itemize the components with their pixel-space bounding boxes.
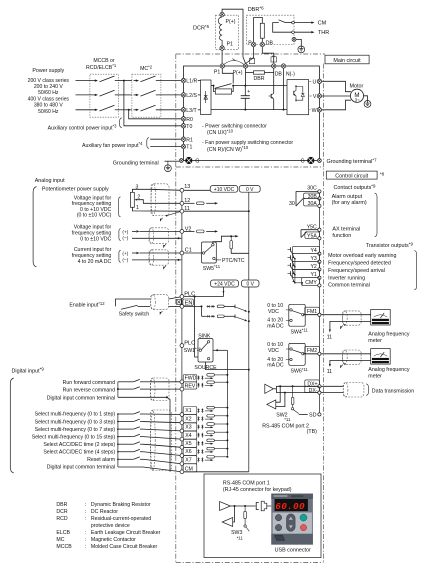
X7 row internal bbox=[198, 456, 229, 463]
open collector transistors bbox=[288, 247, 304, 285]
shield enable drain bbox=[159, 311, 163, 315]
svg-text:0 V: 0 V bbox=[246, 187, 254, 193]
svg-text:Y3: Y3 bbox=[310, 256, 316, 262]
svg-text:X7: X7 bbox=[185, 457, 191, 463]
shield C1 bbox=[149, 250, 169, 265]
svg-text:(0 to ±10 VDC): (0 to ±10 VDC) bbox=[77, 213, 112, 219]
terminal X3 bbox=[180, 429, 184, 433]
30B cell bbox=[304, 193, 321, 200]
svg-text:DBR: DBR bbox=[254, 76, 265, 82]
jumper arc P1 to P(+) bbox=[224, 59, 243, 65]
svg-text:Select ACC/DEC time (4 steps): Select ACC/DEC time (4 steps) bbox=[43, 449, 115, 455]
wire PLC to +24VDC bbox=[184, 287, 225, 298]
terminal SD bbox=[299, 412, 321, 418]
X3 cell bbox=[183, 423, 197, 431]
svg-text:13: 13 bbox=[184, 184, 190, 190]
voltage input 1 labels bbox=[72, 196, 112, 219]
svg-text:Frequency/speed arrival: Frequency/speed arrival bbox=[328, 268, 385, 274]
CM cell bbox=[183, 464, 197, 473]
terminating resistor SW3 bbox=[244, 506, 250, 531]
transistor outputs label bbox=[366, 242, 414, 250]
svg-text:Control circuit: Control circuit bbox=[335, 173, 368, 179]
svg-text:Alarm output: Alarm output bbox=[332, 194, 363, 200]
terminating resistor SW2 bbox=[291, 385, 299, 413]
terminal T1 bbox=[181, 144, 192, 150]
shield FM2 bbox=[343, 350, 362, 364]
ground symbol left bbox=[165, 161, 172, 171]
terminal N(-) bbox=[281, 64, 295, 78]
terminal PLC bbox=[180, 295, 184, 299]
digital input feed rail bbox=[226, 350, 228, 455]
bracket C1 +- bbox=[119, 250, 129, 263]
Y5A cell bbox=[305, 232, 321, 240]
svg-text:X2: X2 bbox=[185, 416, 191, 422]
DBR thermal switch contact bbox=[273, 20, 295, 34]
terminal 11 bbox=[180, 206, 190, 213]
svg-text:Magnetic Contactor: Magnetic Contactor bbox=[91, 537, 136, 543]
svg-text:Digital input common terminal: Digital input common terminal bbox=[47, 396, 115, 402]
svg-text:11: 11 bbox=[327, 369, 332, 375]
svg-text:3~: 3~ bbox=[355, 98, 361, 103]
FWD row internal bbox=[198, 374, 229, 381]
left common bus run commands bbox=[117, 382, 119, 398]
svg-text:Auxiliary fan power input*4: Auxiliary fan power input*4 bbox=[82, 141, 143, 149]
wire C1 minus bbox=[132, 259, 181, 261]
switch SW4 bbox=[286, 304, 305, 326]
power switching connector note bbox=[202, 124, 267, 137]
svg-text:function: function bbox=[332, 233, 351, 239]
safety switch label bbox=[119, 312, 150, 318]
CMY cell bbox=[302, 278, 322, 287]
DX- cell bbox=[276, 386, 321, 394]
svg-text:RS-485 COM port 2: RS-485 COM port 2 bbox=[262, 424, 309, 430]
svg-text:Potentiometer power supply: Potentiometer power supply bbox=[42, 186, 109, 192]
svg-text:Data transmission: Data transmission bbox=[372, 388, 414, 394]
FM1 return wire to 11 bbox=[327, 321, 371, 340]
terminal U bbox=[313, 79, 322, 85]
wire DCR P(+) jumper to main P(+) bbox=[222, 9, 245, 63]
svg-text:Power supply: Power supply bbox=[32, 68, 64, 74]
shield FM2 drain bbox=[339, 363, 345, 368]
svg-text:Frequency/speed detected: Frequency/speed detected bbox=[328, 261, 391, 267]
wire pot 1 to terminal 11 bbox=[132, 207, 181, 211]
DCR label bbox=[193, 24, 210, 32]
X5 row internal bbox=[198, 439, 229, 446]
wires inverter to UVW bbox=[310, 81, 312, 110]
svg-text:Analog frequency: Analog frequency bbox=[368, 332, 410, 338]
X6 row internal bbox=[198, 447, 229, 454]
svg-text:THR: THR bbox=[318, 30, 329, 36]
svg-text:CM: CM bbox=[318, 21, 327, 27]
svg-text:N(-): N(-) bbox=[286, 72, 295, 78]
junction L1 to T0 bbox=[123, 80, 181, 126]
inverter enclosure border (dash-dot) bbox=[176, 54, 325, 563]
svg-text:P(+): P(+) bbox=[233, 70, 243, 76]
wire DBR P to main P(+) with connector CN bbox=[246, 47, 255, 64]
wire SOURCE to 0V rail bbox=[206, 362, 250, 371]
DBR ground terminal bbox=[292, 37, 301, 46]
pot pin labels bbox=[136, 184, 141, 211]
svg-text:(−): (−) bbox=[122, 257, 128, 263]
REV cell bbox=[183, 382, 197, 390]
switch Run reverse command bbox=[118, 387, 151, 389]
wire pot 3 to terminal 13 bbox=[132, 189, 181, 192]
30C label and wire bbox=[296, 185, 321, 193]
terminal X7 bbox=[180, 462, 184, 466]
EN input circuit row 1 bbox=[184, 305, 250, 313]
wires run commands to terminals bbox=[151, 382, 182, 389]
wire DBR DB to main DB with connector CN bbox=[262, 47, 276, 64]
terminal PLC label bbox=[184, 291, 195, 297]
svg-text:60.00: 60.00 bbox=[275, 501, 305, 512]
FM1 cell bbox=[303, 307, 321, 316]
shield drain to 11 bbox=[166, 212, 180, 217]
svg-text:380 to 480 V: 380 to 480 V bbox=[34, 103, 63, 109]
svg-text::: : bbox=[85, 544, 86, 550]
Y4 cell bbox=[293, 246, 322, 255]
inverter IGBT box bbox=[287, 80, 309, 115]
svg-text:(for any alarm): (for any alarm) bbox=[332, 200, 367, 206]
keypad body bbox=[271, 494, 313, 545]
svg-text:P1: P1 bbox=[227, 42, 233, 48]
svg-text:FM1: FM1 bbox=[307, 309, 317, 315]
FM2 cell bbox=[303, 346, 321, 355]
bracket transistor outputs bbox=[414, 251, 416, 290]
svg-text:Molded Case Circuit Breaker: Molded Case Circuit Breaker bbox=[91, 544, 158, 550]
DC bus negative bbox=[211, 109, 287, 111]
svg-text:Select multi-frequency (0 to 3: Select multi-frequency (0 to 3 step) bbox=[35, 419, 116, 425]
svg-text:Select ACC/DEC time (2 steps): Select ACC/DEC time (2 steps) bbox=[43, 442, 115, 448]
svg-text:Common terminal: Common terminal bbox=[328, 283, 370, 289]
analog input bracket bbox=[33, 187, 36, 267]
wire CM to 0V rail bbox=[184, 471, 249, 473]
svg-text:MC: MC bbox=[56, 537, 64, 543]
svg-text:Y5A: Y5A bbox=[307, 234, 317, 240]
terminal L2/S bbox=[181, 93, 197, 99]
terminal X5 bbox=[180, 445, 184, 449]
svg-text:G: G bbox=[195, 159, 199, 165]
wire P(+) down to bus bbox=[245, 68, 247, 85]
svg-text:50/60 Hz: 50/60 Hz bbox=[38, 109, 59, 115]
terminal W bbox=[312, 108, 322, 114]
X1 cell bbox=[183, 407, 197, 415]
junction L3 to R0 bbox=[128, 109, 182, 119]
DCR box (DC reactor, dashed) bbox=[216, 15, 239, 49]
terminal L1/R bbox=[181, 78, 197, 84]
wire digital common 1 bbox=[118, 396, 168, 398]
wire N(-) to bus bbox=[283, 68, 285, 109]
DBR terminal P bbox=[248, 40, 256, 46]
DBR box (braking resistor, dashed) bbox=[246, 15, 294, 44]
svg-text:Main circuit: Main circuit bbox=[333, 58, 361, 64]
DBR label bbox=[248, 5, 264, 13]
svg-text:DB: DB bbox=[266, 40, 274, 46]
svg-text:meter: meter bbox=[368, 338, 382, 344]
svg-text:1: 1 bbox=[136, 205, 139, 211]
motor ground bbox=[363, 96, 371, 108]
svg-text:protective device: protective device bbox=[91, 523, 130, 529]
DCR coil bbox=[218, 17, 222, 46]
bracket voltage input 1 bbox=[119, 197, 121, 217]
Y1 cell bbox=[293, 269, 322, 279]
terminal 12 bbox=[180, 198, 190, 205]
svg-text:0 to ±10 VDC: 0 to ±10 VDC bbox=[80, 237, 111, 243]
svg-text::: : bbox=[85, 509, 86, 515]
svg-text:X5: X5 bbox=[185, 441, 191, 447]
terminal R1 bbox=[181, 137, 193, 143]
SW2 label bbox=[276, 413, 291, 423]
shield run commands bbox=[150, 378, 169, 401]
wire SW1 to input rail bbox=[213, 349, 227, 351]
svg-text:Grounding terminal*7: Grounding terminal*7 bbox=[327, 158, 378, 166]
DX+ cell bbox=[276, 380, 321, 388]
wire P1 to charging node bbox=[222, 68, 233, 83]
svg-text:30: 30 bbox=[289, 201, 295, 207]
svg-text:RCD: RCD bbox=[56, 516, 67, 522]
internal DBR resistor bbox=[246, 71, 274, 82]
shield X group bbox=[151, 410, 172, 471]
wire to THR bbox=[294, 30, 329, 36]
safety cross mark bbox=[176, 299, 181, 304]
shield DX bbox=[343, 383, 364, 398]
svg-text:*11: *11 bbox=[237, 535, 244, 540]
svg-text:T0: T0 bbox=[186, 124, 192, 130]
svg-text:Analog frequency: Analog frequency bbox=[368, 367, 410, 373]
wires DX to shield bbox=[321, 386, 343, 392]
MC label bbox=[140, 65, 153, 73]
shield FM1 drain bbox=[339, 324, 345, 329]
svg-text:(RJ-45 connector for keypad): (RJ-45 connector for keypad) bbox=[223, 487, 292, 493]
shield pot cable bbox=[151, 184, 169, 216]
svg-text:mA DC: mA DC bbox=[267, 363, 284, 369]
current input labels bbox=[72, 247, 112, 265]
shield V2 drain bbox=[162, 244, 166, 248]
wire DCR P1 down to main P1 bbox=[221, 50, 223, 63]
svg-text:G: G bbox=[300, 159, 304, 165]
svg-text:EN: EN bbox=[185, 301, 193, 307]
svg-text:Select multi-frequency (0 to 7: Select multi-frequency (0 to 7 step) bbox=[35, 427, 116, 433]
Main circuit label box bbox=[325, 55, 369, 64]
PLC2 label bbox=[184, 340, 195, 346]
svg-text:Select multi-frequency (0 to 1: Select multi-frequency (0 to 15 step) bbox=[32, 434, 116, 440]
svg-text:Dynamic Braking Resistor: Dynamic Braking Resistor bbox=[91, 502, 151, 508]
svg-text:Digital input*9: Digital input*9 bbox=[12, 367, 45, 375]
terminal X6 bbox=[180, 454, 184, 458]
DCR terminal P1 bbox=[220, 42, 233, 51]
terminal X4 bbox=[180, 437, 184, 441]
svg-text:(+): (+) bbox=[122, 251, 128, 257]
SW3 label bbox=[231, 530, 243, 541]
grounding terminal G right bbox=[300, 157, 321, 165]
svg-text:FWD: FWD bbox=[185, 376, 197, 382]
0V rail bbox=[248, 192, 250, 472]
svg-text:X3: X3 bbox=[185, 425, 191, 431]
safety switch symbol bbox=[116, 299, 151, 309]
svg-text:PTC/NTC: PTC/NTC bbox=[222, 258, 245, 264]
0 V box bbox=[239, 186, 260, 194]
svg-text:P1: P1 bbox=[214, 69, 220, 75]
svg-text:U: U bbox=[313, 79, 317, 85]
terminal REV bbox=[180, 387, 184, 391]
svg-text:30A: 30A bbox=[308, 201, 318, 207]
shield FM1 bbox=[343, 311, 362, 325]
RJ45 connector symbol bbox=[256, 501, 271, 511]
svg-text:REV: REV bbox=[185, 383, 196, 389]
MCCB dashed box bbox=[90, 74, 118, 117]
grounding terminal label left bbox=[113, 160, 179, 166]
auxiliary control power input label bbox=[48, 118, 122, 132]
contact outputs label bbox=[334, 184, 376, 192]
keypad display bbox=[275, 499, 308, 512]
terminal X1 bbox=[180, 413, 184, 417]
svg-text:DBR: DBR bbox=[56, 502, 67, 508]
svg-text:P(+): P(+) bbox=[226, 19, 236, 25]
SW6 label bbox=[291, 367, 309, 375]
svg-text:L2/S: L2/S bbox=[186, 93, 197, 99]
Y5C wire bbox=[301, 224, 321, 231]
wire to CM bbox=[294, 21, 326, 27]
analog meter FM1 bbox=[371, 310, 391, 326]
X2 row internal bbox=[198, 415, 229, 422]
FM1 source labels bbox=[267, 303, 284, 330]
REV row internal bbox=[198, 381, 229, 388]
svg-text::: : bbox=[85, 502, 86, 508]
rectifier box bbox=[201, 80, 212, 115]
svg-text:PLC: PLC bbox=[184, 340, 195, 346]
switch X4 bbox=[117, 434, 143, 437]
RS485 receiver port2 bbox=[267, 385, 286, 409]
DBR ground symbol bbox=[298, 46, 305, 53]
keypad USB port bbox=[271, 534, 313, 545]
wire digital common 2 bbox=[118, 466, 143, 468]
svg-text:50/60 Hz: 50/60 Hz bbox=[38, 90, 59, 96]
wire 11 to 0V rail bbox=[184, 210, 249, 212]
analog input label bbox=[35, 178, 65, 184]
X1 row internal bbox=[198, 406, 229, 413]
svg-text:Inverter running: Inverter running bbox=[328, 275, 365, 281]
svg-text:Select multi-frequency (0 to 1: Select multi-frequency (0 to 1 step) bbox=[35, 412, 116, 418]
switch X3 bbox=[117, 427, 143, 430]
USB connector label bbox=[275, 548, 311, 554]
svg-text:(−): (−) bbox=[122, 236, 128, 242]
DBR internal wiring and resistor bbox=[254, 18, 265, 43]
digital input label bbox=[12, 367, 45, 375]
terminal EN cell bbox=[183, 299, 193, 307]
svg-text:MCCB: MCCB bbox=[56, 544, 72, 550]
bracket alarm to AX bbox=[375, 193, 377, 237]
Y3 cell bbox=[293, 254, 322, 264]
svg-text:Run reverse command: Run reverse command bbox=[63, 387, 116, 393]
charging resistor and bypass switch bbox=[211, 84, 234, 95]
EN input circuit row 2 bbox=[202, 306, 250, 322]
svg-text:Motor: Motor bbox=[350, 84, 364, 90]
svg-text:Run forward command: Run forward command bbox=[63, 380, 116, 386]
terminal V2 bbox=[180, 226, 191, 233]
PTC/NTC label bbox=[215, 258, 245, 264]
analog meter FM2 bbox=[371, 349, 391, 365]
abbreviation legend bbox=[56, 502, 160, 550]
svg-text:V: V bbox=[313, 94, 317, 100]
left terminal rail bbox=[181, 188, 183, 472]
wire V2 internal with resistor bbox=[184, 230, 218, 233]
svg-text:Y1: Y1 bbox=[310, 272, 316, 278]
DCR terminal P(+) bbox=[220, 12, 236, 25]
svg-text:Reset alarm: Reset alarm bbox=[87, 457, 115, 463]
wire C1 plus bbox=[132, 252, 181, 254]
X4 cell bbox=[183, 431, 197, 439]
terminal DB bbox=[272, 64, 283, 78]
svg-text:*8: *8 bbox=[380, 171, 385, 176]
svg-text:VDC: VDC bbox=[268, 348, 279, 354]
Y2 cell bbox=[293, 262, 322, 271]
wire FM1 to meter bbox=[321, 314, 371, 316]
terminal P1 bbox=[214, 64, 225, 76]
svg-text:+: + bbox=[247, 89, 250, 95]
AX terminal labels bbox=[332, 226, 360, 238]
X4 row internal bbox=[198, 431, 229, 438]
power supply labels bbox=[28, 68, 70, 115]
run command labels bbox=[47, 380, 115, 402]
DC bus positive bbox=[233, 85, 287, 87]
RS-485 COM port 1 label bbox=[223, 480, 292, 493]
svg-text:Residual-current-operated: Residual-current-operated bbox=[91, 516, 151, 522]
power wire L2 with breaker and contactor bbox=[76, 90, 182, 96]
terminal EN bbox=[180, 305, 184, 309]
terminal T0 bbox=[181, 124, 192, 130]
svg-text:400 V class series: 400 V class series bbox=[28, 96, 70, 102]
svg-text:RS-485 COM port 1: RS-485 COM port 1 bbox=[223, 480, 270, 486]
switch X1 bbox=[117, 412, 143, 415]
svg-text::: : bbox=[85, 530, 86, 536]
X2 cell bbox=[183, 415, 197, 423]
bracket V2 +- bbox=[119, 229, 129, 242]
multi-frequency labels bbox=[32, 412, 116, 471]
30A cell bbox=[304, 199, 321, 208]
terminal V bbox=[313, 94, 322, 100]
svg-text:L3/T: L3/T bbox=[186, 108, 197, 114]
wires X group to terminals bbox=[143, 414, 181, 472]
svg-text:Auxiliary control power input*: Auxiliary control power input*3 bbox=[48, 124, 118, 132]
keypad buttons bbox=[273, 513, 312, 534]
wire pot 2 to terminal 12 bbox=[137, 200, 181, 204]
svg-text:mA DC: mA DC bbox=[267, 324, 284, 330]
svg-text:ELCB: ELCB bbox=[56, 530, 70, 536]
transistor output function labels bbox=[328, 253, 396, 289]
right terminal rail bbox=[318, 191, 320, 414]
switch X6 bbox=[117, 449, 143, 452]
+24 VDC box bbox=[211, 280, 239, 288]
svg-text:- Power switching connector: - Power switching connector bbox=[202, 124, 267, 130]
svg-text:AX terminal: AX terminal bbox=[332, 226, 360, 232]
voltage input 2 labels bbox=[72, 225, 112, 243]
power wire L1 with breaker and contactor bbox=[76, 76, 182, 82]
svg-text:R0: R0 bbox=[186, 117, 193, 123]
X3 row internal bbox=[198, 423, 229, 430]
svg-text:L1/R: L1/R bbox=[186, 79, 197, 85]
shield ground arrow bbox=[159, 218, 163, 222]
svg-text:X4: X4 bbox=[185, 433, 191, 439]
enable input label bbox=[69, 301, 105, 309]
switch X2 bbox=[117, 419, 143, 422]
MCCB/RCD label bbox=[86, 58, 117, 71]
svg-text:200 to 240 V: 200 to 240 V bbox=[34, 84, 63, 90]
RS-485 COM port 2 label bbox=[262, 424, 317, 436]
svg-text:VDC: VDC bbox=[268, 309, 279, 315]
SW1 sink-source switch bbox=[198, 339, 213, 363]
terminal FWD bbox=[180, 380, 184, 384]
DBR terminal DB bbox=[260, 40, 273, 46]
wire 12 internal with resistor bbox=[184, 202, 218, 205]
